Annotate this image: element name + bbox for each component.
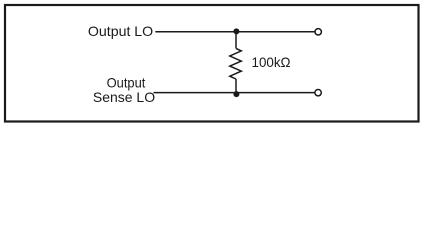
wire: bottom horizontal (Output Sense LO to terminal) <box>154 92 315 94</box>
wire: top horizontal (Output LO to terminal) <box>155 31 314 33</box>
junction: bottom node dot <box>233 91 239 97</box>
svg-text:Output: Output <box>107 74 146 90</box>
resistor 100kΩ <box>230 48 242 79</box>
wire: resistor bottom lead <box>235 79 237 94</box>
terminal: top output (open circle) <box>315 29 321 35</box>
wire: resistor top lead <box>235 32 237 49</box>
svg-text:Output LO: Output LO <box>88 23 153 39</box>
junction: top node dot <box>233 28 239 34</box>
svg-text:Sense LO: Sense LO <box>93 89 155 105</box>
svg-text:100kΩ: 100kΩ <box>252 54 291 70</box>
terminal: bottom sense (open circle) <box>315 89 321 95</box>
